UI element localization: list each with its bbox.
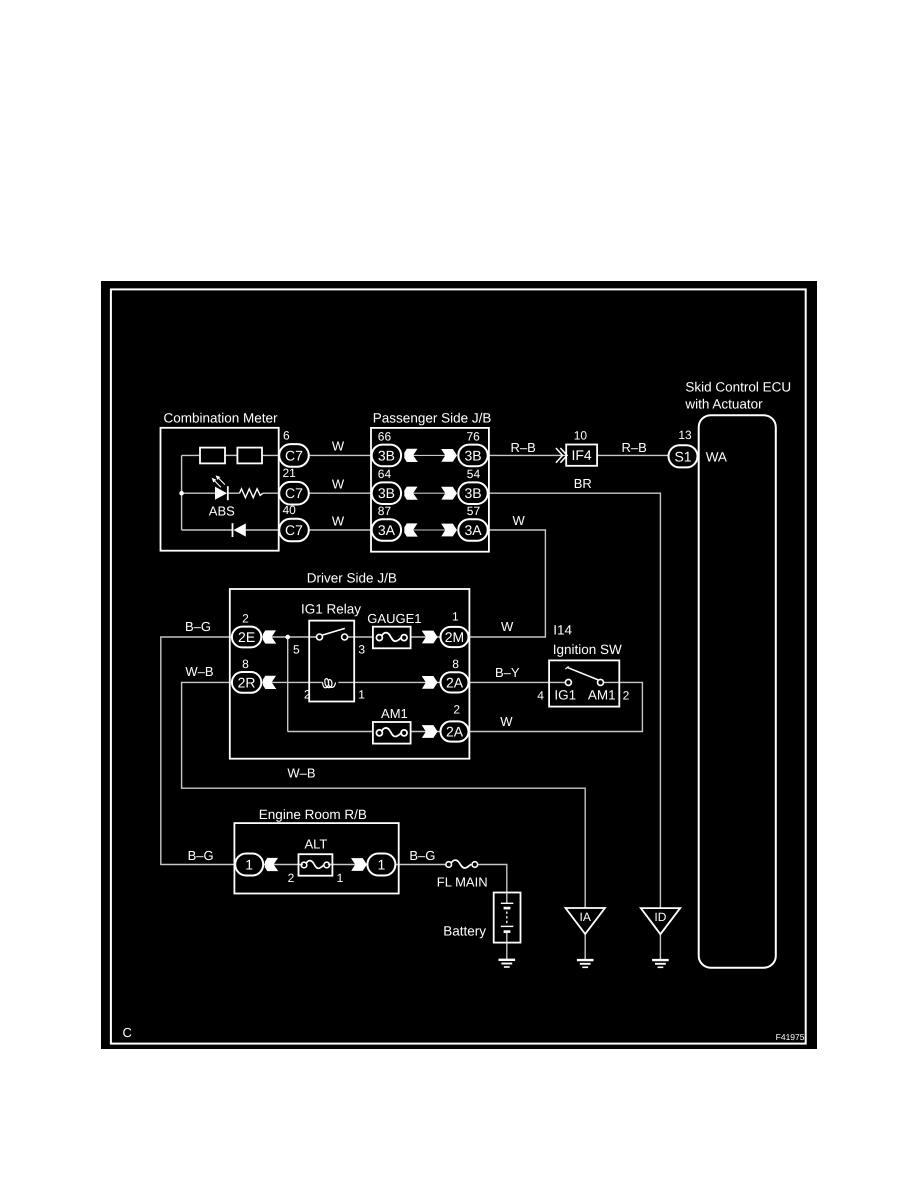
svg-text:2M: 2M: [445, 629, 464, 645]
svg-text:1: 1: [358, 688, 365, 702]
wire R-B 3B76 to IF4: [488, 454, 567, 456]
svg-text:ABS: ABS: [209, 503, 235, 518]
svg-text:10: 10: [574, 429, 588, 443]
svg-text:6: 6: [283, 429, 290, 443]
junction dot row2: [179, 491, 184, 496]
svg-text:W–B: W–B: [287, 766, 315, 781]
male arrow row2: [441, 487, 457, 500]
svg-text:I14: I14: [553, 622, 572, 637]
fuse ALT box: [299, 854, 333, 876]
male arrow 2M: [422, 631, 438, 644]
wire row2 to LED: [182, 492, 215, 494]
wire AM1 row to fuse: [288, 731, 373, 733]
svg-text:W: W: [332, 438, 345, 453]
svg-text:2: 2: [304, 688, 311, 702]
svg-text:76: 76: [467, 430, 481, 444]
wire R-B IF4 to S1: [597, 454, 668, 456]
svg-text:Passenger Side J/B: Passenger Side J/B: [373, 410, 492, 425]
svg-text:IA: IA: [580, 910, 591, 924]
wire IA triangle to ground: [584, 934, 586, 959]
wire AM1 terminal to pin2 down to 2A2: [469, 682, 643, 731]
relay coil: [323, 679, 336, 688]
junction dot relay feed: [285, 635, 290, 640]
wire W C7-3B row2: [309, 492, 372, 494]
connector 3B pin 64: [372, 482, 401, 504]
relay contact left: [317, 634, 323, 640]
wire LED bar to resistor: [228, 492, 240, 494]
svg-text:B–Y: B–Y: [495, 665, 520, 680]
svg-text:21: 21: [283, 466, 297, 480]
LED emission arrow 1: [212, 475, 225, 487]
passenger side J/B box: [371, 428, 489, 552]
meter component rect 1: [200, 448, 225, 464]
combination meter box: [161, 428, 279, 551]
male arrow engine: [351, 858, 367, 871]
meter component rect 2: [237, 448, 262, 464]
resistor zigzag: [240, 489, 263, 498]
battery plate long 2: [501, 925, 514, 927]
diode bar: [232, 523, 234, 537]
female arrow 2R: [263, 676, 277, 689]
ground ID: [652, 960, 669, 967]
wire B-G 2E left down to engine room: [161, 637, 236, 865]
wire BR 3B54 right then down to ID: [489, 493, 661, 908]
svg-text:GAUGE1: GAUGE1: [367, 611, 421, 626]
diode row3: [234, 523, 246, 536]
svg-text:2A: 2A: [446, 674, 464, 690]
wire engine room oval1 to ALT: [263, 864, 303, 866]
male arrow 2A8: [422, 676, 438, 689]
wire W C7-3A row3: [309, 529, 372, 531]
wire battery bottom to ground: [506, 932, 508, 959]
fuse AM1 symbol: [376, 728, 407, 737]
black panel background: [101, 281, 817, 1049]
wire FL MAIN to battery: [477, 865, 507, 904]
female arrow row2: [404, 487, 418, 500]
svg-text:AM1: AM1: [588, 688, 616, 703]
connector C7 pin 40: [279, 519, 309, 542]
svg-text:87: 87: [378, 504, 392, 518]
svg-text:57: 57: [467, 504, 481, 518]
relay IG1 box: [309, 621, 354, 702]
svg-text:1: 1: [245, 857, 253, 873]
svg-text:2E: 2E: [238, 629, 255, 645]
female arrow row3: [404, 523, 418, 536]
svg-text:8: 8: [452, 657, 459, 671]
wire B-Y 2A8 to IG1: [469, 681, 566, 683]
wire between meter rects: [225, 454, 237, 456]
LED emission arrow 2: [218, 477, 225, 484]
driver side J/B box: [230, 589, 470, 759]
wire row3 to diode: [182, 529, 233, 531]
wire relay coil to 2A8: [338, 681, 440, 683]
female arrow row1: [404, 449, 418, 462]
connector S1 pin 13: [669, 445, 698, 467]
triangle connector ID: [641, 908, 680, 934]
wire ALT to oval1 right: [328, 864, 367, 866]
svg-text:S1: S1: [674, 448, 691, 464]
white inner frame border: [111, 289, 806, 1043]
wire W C7-3B row1: [309, 454, 372, 456]
svg-text:2: 2: [242, 611, 249, 625]
svg-text:C7: C7: [285, 485, 303, 501]
svg-text:with Actuator: with Actuator: [684, 397, 763, 412]
wire junction drop to AM1 fuse row: [287, 637, 289, 732]
relay switch blade: [322, 628, 345, 635]
svg-text:AM1: AM1: [381, 706, 408, 721]
svg-text:W: W: [512, 513, 525, 528]
fuse AM1 box: [373, 722, 411, 744]
svg-text:FL MAIN: FL MAIN: [437, 875, 488, 890]
svg-text:C7: C7: [285, 447, 303, 463]
female arrow 2E: [263, 630, 277, 643]
connector 2R pin 8: [232, 672, 261, 693]
wire AM1 fuse to 2A2: [411, 731, 440, 733]
svg-text:Engine Room R/B: Engine Room R/B: [259, 807, 367, 822]
svg-text:3A: 3A: [378, 522, 396, 538]
relay contact right: [342, 634, 348, 640]
svg-text:W: W: [501, 619, 514, 634]
svg-text:W–B: W–B: [185, 664, 213, 679]
svg-text:1: 1: [452, 610, 459, 624]
battery plate short 1: [504, 907, 511, 910]
battery dotted link: [506, 912, 508, 924]
wire GAUGE1 fuse to 2M: [411, 636, 440, 638]
wire W-B 2R left down right to IA: [182, 682, 586, 908]
svg-text:4: 4: [537, 689, 544, 703]
IG1 terminal: [565, 679, 571, 685]
page-link chevrons: [556, 448, 567, 463]
svg-text:5: 5: [293, 643, 300, 657]
connector 3B pin 54: [458, 482, 487, 504]
connector 3B pin 66: [372, 445, 401, 467]
connector 2M pin 1: [441, 627, 469, 647]
wire diode to C7 pin40: [246, 529, 280, 531]
connector 2A pin 8: [441, 672, 469, 692]
svg-text:2R: 2R: [238, 674, 256, 690]
ABS LED triangle: [215, 487, 227, 500]
svg-text:Battery: Battery: [443, 924, 486, 939]
svg-text:3B: 3B: [464, 485, 481, 501]
battery plate long 1: [501, 902, 514, 904]
Skid Control ECU box: [699, 415, 776, 968]
svg-text:IG1: IG1: [554, 688, 576, 703]
svg-text:W: W: [332, 514, 345, 529]
svg-text:W: W: [500, 714, 513, 729]
wire 2R to relay coil: [261, 681, 323, 683]
svg-text:IG1 Relay: IG1 Relay: [301, 601, 361, 616]
svg-text:54: 54: [467, 467, 481, 481]
wire rect2 to C7 pin6: [262, 454, 280, 456]
connector 2E pin 2: [232, 627, 261, 648]
svg-text:B–G: B–G: [409, 848, 435, 863]
svg-text:C7: C7: [285, 522, 303, 538]
svg-text:WA: WA: [706, 450, 727, 465]
wire relay to GAUGE1 fuse: [348, 636, 374, 638]
connector C7 pin 6: [279, 444, 309, 467]
svg-text:C: C: [123, 1025, 132, 1040]
svg-text:Ignition SW: Ignition SW: [553, 642, 622, 657]
connector 1 right: [367, 854, 395, 876]
svg-text:ALT: ALT: [304, 837, 327, 852]
svg-text:8: 8: [242, 657, 249, 671]
wire ID triangle to ground: [659, 934, 661, 959]
svg-text:IF4: IF4: [571, 447, 591, 463]
connector 3A pin 87: [372, 519, 401, 541]
svg-text:ID: ID: [654, 910, 666, 924]
ground IA: [577, 960, 594, 967]
wire B-G oval to FL MAIN: [396, 864, 447, 866]
connector C7 pin 21: [279, 482, 309, 505]
engine room R/B box: [234, 823, 398, 893]
connector 1 left: [235, 854, 263, 876]
svg-text:3B: 3B: [464, 447, 481, 463]
svg-text:1: 1: [337, 871, 344, 885]
ignition blade: [567, 667, 598, 680]
male arrow row3: [441, 524, 457, 537]
connector 2A pin 2: [441, 721, 469, 741]
svg-text:2: 2: [288, 871, 295, 885]
svg-text:64: 64: [378, 467, 392, 481]
svg-text:F41975: F41975: [776, 1032, 805, 1042]
svg-text:W: W: [332, 476, 345, 491]
svg-text:2: 2: [623, 689, 630, 703]
AM1 terminal: [598, 679, 604, 685]
svg-text:3B: 3B: [378, 447, 395, 463]
svg-text:40: 40: [283, 503, 297, 517]
fusible link FL MAIN: [446, 860, 478, 868]
triangle connector IA: [566, 908, 605, 934]
svg-text:3B: 3B: [378, 485, 395, 501]
svg-text:B–G: B–G: [185, 619, 211, 634]
wire resistor to C7 pin21: [263, 492, 280, 494]
svg-text:1: 1: [378, 857, 386, 873]
wire 2E to relay contact: [261, 636, 317, 638]
svg-text:3: 3: [358, 643, 365, 657]
ground battery: [499, 960, 516, 967]
wire junction arrows row1: [410, 454, 450, 456]
connector 3B pin 76: [458, 445, 487, 467]
wire W 3A57 down to 2M: [469, 530, 546, 637]
connector 3A pin 57: [458, 519, 487, 541]
svg-text:Driver Side J/B: Driver Side J/B: [307, 571, 397, 586]
svg-text:Combination Meter: Combination Meter: [164, 411, 279, 426]
ignition SW box: [549, 660, 619, 706]
male arrow 2A2: [422, 725, 438, 738]
svg-text:Skid Control ECU: Skid Control ECU: [685, 380, 791, 395]
male arrow row1: [441, 449, 457, 462]
svg-text:2A: 2A: [446, 724, 464, 740]
fuse ALT symbol: [301, 861, 329, 869]
wire junction arrows row3: [410, 529, 450, 531]
fuse GAUGE1 box: [373, 627, 411, 649]
ABS LED cathode bar: [227, 486, 229, 500]
svg-text:B–G: B–G: [188, 848, 214, 863]
fuse GAUGE1 symbol: [376, 633, 407, 642]
svg-text:3A: 3A: [464, 522, 482, 538]
wire junction arrows row2: [410, 492, 450, 494]
svg-text:R–B: R–B: [511, 440, 536, 455]
female arrow engine: [265, 858, 279, 871]
svg-text:13: 13: [678, 428, 692, 442]
battery plate short 2: [504, 930, 511, 933]
svg-text:66: 66: [378, 430, 392, 444]
meter internal left vertical: [181, 455, 183, 530]
svg-text:BR: BR: [574, 476, 592, 491]
battery box: [494, 893, 521, 943]
fuse IF4 box: [566, 445, 597, 466]
svg-text:R–B: R–B: [622, 440, 647, 455]
wire W row1 meter internal: [182, 454, 200, 456]
svg-text:2: 2: [453, 703, 460, 717]
